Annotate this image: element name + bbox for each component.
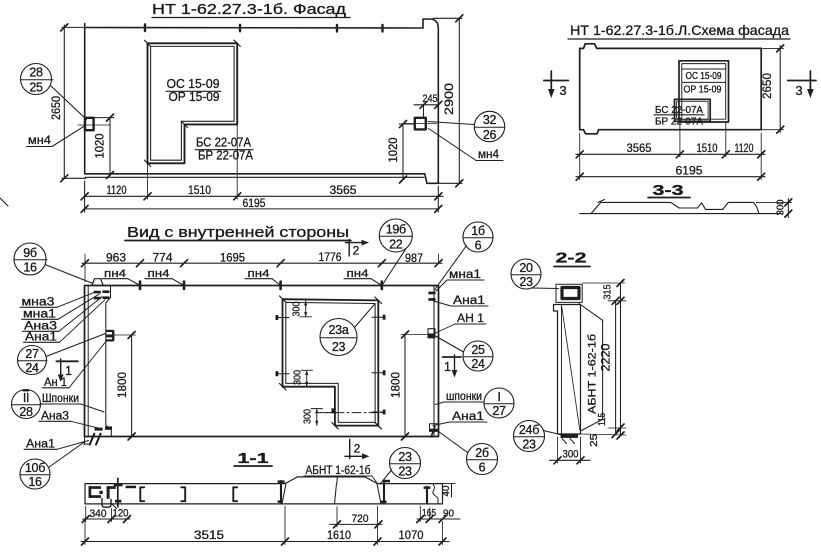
svg-text:мна3: мна3 xyxy=(22,297,55,309)
leader balloon 32/26 to embed xyxy=(428,122,474,125)
svg-text:300: 300 xyxy=(293,370,304,385)
svg-text:25: 25 xyxy=(471,343,485,357)
svg-text:1510: 1510 xyxy=(697,141,718,155)
weld dashes top-right corner xyxy=(428,292,435,301)
dim 1800 right xyxy=(389,331,433,440)
title 2-2 xyxy=(554,250,590,267)
schema label ОС/ОР xyxy=(684,71,722,96)
пн4 label 2 xyxy=(145,268,184,289)
svg-text:6195: 6195 xyxy=(676,164,703,178)
schema panel outline xyxy=(580,44,762,134)
svg-text:120: 120 xyxy=(113,508,129,520)
svg-text:1б: 1б xyxy=(471,224,485,238)
section marker 3 (left) xyxy=(544,71,569,98)
svg-text:НТ 1-62.27.3-1б. Фасад: НТ 1-62.27.3-1б. Фасад xyxy=(152,2,347,18)
svg-text:1510: 1510 xyxy=(188,183,211,197)
opening anchor marks xyxy=(276,315,386,415)
stray leader mark at left margin xyxy=(0,198,8,206)
balloon I/27 xyxy=(484,388,514,418)
svg-text:3: 3 xyxy=(559,83,566,98)
balloon 2б/6 xyxy=(437,430,498,475)
dim 1020 (facade right) xyxy=(386,121,414,184)
facade panel outline xyxy=(85,19,439,183)
svg-text:Ана3: Ана3 xyxy=(41,411,69,423)
schema dim 6195 xyxy=(576,157,765,180)
section 3-3 dim 300 xyxy=(756,199,792,218)
svg-text:1020: 1020 xyxy=(93,133,107,158)
svg-text:20: 20 xyxy=(519,261,533,275)
embed мн4 right (facade) xyxy=(403,118,437,130)
section marker 1 (left) xyxy=(56,359,77,382)
svg-text:ОС 15-09: ОС 15-09 xyxy=(686,71,722,82)
svg-text:Ана1: Ана1 xyxy=(453,295,485,307)
bracket [ at 140 xyxy=(140,487,144,501)
balloon 23а/23 xyxy=(320,304,375,356)
dim 1800 left xyxy=(115,332,136,441)
top embed (sec 2-2) xyxy=(556,284,582,302)
title 1-1 xyxy=(234,450,272,467)
svg-text:БР 22-07А: БР 22-07А xyxy=(198,149,254,163)
svg-text:23: 23 xyxy=(332,340,346,354)
anchor I at 384 xyxy=(380,480,390,503)
label Ана1 (right bottom) xyxy=(433,411,487,426)
mini dim 300 middle xyxy=(293,370,313,387)
пн4 label 1 xyxy=(102,268,140,289)
svg-text:27: 27 xyxy=(492,404,506,418)
svg-text:340: 340 xyxy=(90,508,107,520)
title: НТ 1-62.27.3-1б. Фасад xyxy=(152,2,350,18)
embed АН1 right edge xyxy=(428,329,435,338)
opening label БС 22-07А / БР 22-07А xyxy=(195,136,254,163)
svg-text:23: 23 xyxy=(522,438,536,452)
label мна1 xyxy=(22,294,100,320)
section marker 3 (right) xyxy=(788,71,816,98)
svg-text:БР 22-07А: БР 22-07А xyxy=(655,117,703,128)
section 3-3 profile xyxy=(580,200,782,214)
svg-text:28: 28 xyxy=(29,66,43,80)
svg-text:1: 1 xyxy=(444,360,451,374)
balloon 9б/16 xyxy=(14,243,93,284)
bracket ] at 184 xyxy=(181,487,185,501)
balloon 24б/23 xyxy=(514,421,563,452)
svg-text:19б: 19б xyxy=(386,223,406,237)
label Ана3 (bottom-left) xyxy=(39,411,100,429)
mini dim 300 bottom xyxy=(303,409,323,426)
facade top edge plate ticks xyxy=(145,25,383,32)
svg-text:мн4: мн4 xyxy=(28,133,51,147)
strip (sec 2-2) xyxy=(554,305,581,435)
dim 2650 (facade left) xyxy=(49,24,86,182)
title 3-3 xyxy=(648,182,690,199)
inner dim row 963|774|1695|1776|987 xyxy=(82,250,443,282)
svg-text:1: 1 xyxy=(65,364,72,378)
corner plate (top-left) xyxy=(92,279,103,286)
dim 340|120 xyxy=(82,506,130,523)
svg-text:ОР 15-09: ОР 15-09 xyxy=(684,85,722,96)
svg-text:6: 6 xyxy=(475,239,482,253)
svg-text:9б: 9б xyxy=(23,246,37,260)
dim 245 (facade right) xyxy=(414,93,442,117)
svg-text:115: 115 xyxy=(597,413,608,426)
balloon 19б/22 xyxy=(379,219,412,285)
svg-text:мна1: мна1 xyxy=(23,309,56,321)
title: Вид с внутренней стороны xyxy=(125,225,351,241)
main dim row 3515|1610|1070 xyxy=(81,506,449,545)
svg-text:3-3: 3-3 xyxy=(653,182,684,199)
dim 2900 (facade far right) xyxy=(433,15,463,187)
svg-text:2650: 2650 xyxy=(49,96,63,120)
leader balloon 28/25 to embed xyxy=(51,86,87,120)
label мна3 xyxy=(20,292,96,309)
label шпонки (right) xyxy=(436,391,485,405)
strip outline (sec 1-1) xyxy=(85,477,443,504)
svg-text:28: 28 xyxy=(19,405,33,419)
balloon 20/23 xyxy=(511,259,559,289)
svg-text:90: 90 xyxy=(443,508,454,520)
label Ана1 (right top) xyxy=(434,295,489,307)
svg-text:2: 2 xyxy=(354,442,361,456)
label Шпонки (left) xyxy=(40,393,104,412)
svg-text:10б: 10б xyxy=(25,461,45,475)
svg-text:23а: 23а xyxy=(329,323,349,337)
svg-text:963: 963 xyxy=(106,251,126,265)
svg-text:1020: 1020 xyxy=(386,137,400,162)
bottom-left corner marks xyxy=(84,426,112,444)
balloon 1б/6 xyxy=(435,222,494,290)
balloon 10б/16 xyxy=(20,442,85,490)
svg-text:мн4: мн4 xyxy=(478,147,499,161)
svg-text:16: 16 xyxy=(23,261,37,275)
svg-text:3: 3 xyxy=(795,83,802,98)
svg-text:Шпонки: Шпонки xyxy=(42,393,79,405)
svg-text:24б: 24б xyxy=(519,423,539,437)
svg-text:2220: 2220 xyxy=(598,343,612,371)
title: НТ 1-62.27.3-1б.Л.Схема фасада xyxy=(568,22,790,39)
embed Ан1 left edge xyxy=(106,330,115,342)
svg-text:300: 300 xyxy=(563,449,579,461)
window+door opening (facade) xyxy=(144,40,240,166)
label мн4 right xyxy=(429,129,504,162)
section marker 2 (bottom) xyxy=(345,439,370,459)
svg-text:1070: 1070 xyxy=(399,528,424,542)
svg-text:БС 22-07А: БС 22-07А xyxy=(196,136,252,150)
label мна1 (right) xyxy=(436,269,484,291)
inner panel right inner edge xyxy=(433,286,435,437)
svg-text:40: 40 xyxy=(441,485,452,496)
dim 720 xyxy=(330,507,382,528)
schema door leaf xyxy=(675,99,711,121)
svg-text:Ана1: Ана1 xyxy=(26,439,55,451)
svg-text:1120: 1120 xyxy=(107,183,127,197)
svg-text:ОР 15-09: ОР 15-09 xyxy=(169,90,220,104)
balloon 27/24 xyxy=(18,334,106,376)
facade dim row 1120|1510|3565 xyxy=(81,125,443,200)
dim 165|90 xyxy=(417,506,460,523)
schema window opening xyxy=(679,61,729,122)
svg-text:22: 22 xyxy=(389,238,403,252)
schema label БС/БР xyxy=(654,105,704,128)
label Ана3 xyxy=(23,297,103,333)
label Ан 1 xyxy=(42,340,107,389)
schema dim 2650 xyxy=(760,45,784,133)
anchor I at 427 xyxy=(424,486,431,503)
svg-text:16: 16 xyxy=(28,475,42,489)
svg-text:2-2: 2-2 xyxy=(556,250,587,267)
left end embed detail (sec 1-1) xyxy=(89,483,137,502)
label Ана1 (top-left) xyxy=(24,300,106,344)
svg-text:АБНТ 1-62-1б: АБНТ 1-62-1б xyxy=(306,465,371,477)
opening centerline (dash-dot) xyxy=(318,412,383,414)
weld dashes top-left corner xyxy=(94,290,110,299)
balloon 32/26 xyxy=(474,111,504,142)
svg-text:27: 27 xyxy=(25,347,39,361)
balloon II/28 xyxy=(12,390,42,420)
embed мн4 left (facade) xyxy=(78,118,111,130)
dim 1020 (facade left) xyxy=(93,114,115,178)
svg-text:315: 315 xyxy=(603,284,614,299)
label АБНТ 1-62-1б xyxy=(304,465,378,484)
dim line right (sec 2-2) xyxy=(581,280,626,447)
svg-text:НТ 1-62.27.3-1б.Л.Схема фасада: НТ 1-62.27.3-1б.Л.Схема фасада xyxy=(570,22,789,38)
facade dim 6195 xyxy=(81,181,442,212)
svg-text:1800: 1800 xyxy=(389,372,403,398)
svg-text:300: 300 xyxy=(292,301,303,316)
svg-text:3565: 3565 xyxy=(330,183,357,197)
svg-text:6: 6 xyxy=(479,461,486,475)
svg-text:26: 26 xyxy=(483,128,497,142)
пн4 label 4 xyxy=(344,268,382,289)
bottom-right corner marks xyxy=(430,424,439,437)
balloon 28/25 xyxy=(21,64,54,95)
svg-text:II: II xyxy=(23,391,29,405)
bracket [ at 233 xyxy=(233,487,237,501)
svg-text:1-1: 1-1 xyxy=(238,450,269,467)
inner panel outline xyxy=(85,286,439,437)
svg-text:25: 25 xyxy=(589,433,600,447)
label АН1 (right) xyxy=(436,313,487,333)
АБНТ bracket (sec 2-2) xyxy=(579,304,603,431)
svg-text:шпонки: шпонки xyxy=(446,391,482,403)
svg-text:23: 23 xyxy=(398,465,412,479)
svg-text:1610: 1610 xyxy=(327,528,351,542)
section marker 2 (top) xyxy=(346,240,370,258)
svg-text:1776: 1776 xyxy=(319,250,342,264)
dim 300 (sec 2-2 bottom) xyxy=(550,437,591,464)
section marker 1 (right) xyxy=(443,355,462,378)
svg-text:987: 987 xyxy=(405,251,423,265)
inner opening outline xyxy=(283,299,379,425)
mini dim 300 top xyxy=(292,301,312,317)
svg-text:Ан 1: Ан 1 xyxy=(44,377,67,389)
svg-text:1695: 1695 xyxy=(220,251,245,265)
opening label ОС 15-09 / ОР 15-09 xyxy=(166,77,221,104)
svg-text:Ана1: Ана1 xyxy=(25,332,57,344)
svg-text:2б: 2б xyxy=(475,446,489,460)
svg-text:165: 165 xyxy=(422,507,436,519)
schema dim row 3565|1510|1120 xyxy=(576,123,765,158)
svg-text:1120: 1120 xyxy=(735,141,754,155)
svg-text:2: 2 xyxy=(353,244,360,258)
svg-text:3565: 3565 xyxy=(627,141,652,155)
anchor cross at left end xyxy=(117,478,119,507)
svg-text:23: 23 xyxy=(398,450,412,464)
svg-text:мна1: мна1 xyxy=(449,269,481,281)
svg-text:2650: 2650 xyxy=(760,73,774,99)
svg-text:24: 24 xyxy=(471,357,485,371)
svg-text:720: 720 xyxy=(352,513,369,525)
label мн4 left xyxy=(27,126,85,147)
svg-text:ОС 15-09: ОС 15-09 xyxy=(167,77,220,91)
svg-text:245: 245 xyxy=(423,93,438,105)
svg-text:2900: 2900 xyxy=(442,83,456,115)
right end moulded profile xyxy=(433,484,438,504)
hook below left end xyxy=(102,499,111,508)
balloon 25/24 xyxy=(436,336,494,371)
inner slants (sec 1-1) xyxy=(282,477,381,504)
svg-text:774: 774 xyxy=(153,251,173,265)
svg-text:АБНТ 1-62-1б: АБНТ 1-62-1б xyxy=(586,334,598,414)
bottom embed (sec 2-2) xyxy=(561,435,579,444)
svg-text:Вид с внутренней стороны: Вид с внутренней стороны xyxy=(127,225,349,241)
dim 40 (right end) xyxy=(441,484,455,497)
svg-text:32: 32 xyxy=(483,113,497,127)
balloon 23/23 (sec 1-1) xyxy=(380,448,421,485)
svg-text:300: 300 xyxy=(303,409,314,424)
svg-text:3515: 3515 xyxy=(194,528,224,542)
svg-text:АН 1: АН 1 xyxy=(457,313,484,325)
svg-text:1800: 1800 xyxy=(115,372,129,398)
label Ана1 (bottom-left) xyxy=(24,439,89,451)
anchor I at 281 xyxy=(278,480,285,502)
svg-text:24: 24 xyxy=(25,361,39,375)
svg-text:Ана1: Ана1 xyxy=(452,411,484,423)
svg-text:300: 300 xyxy=(776,199,787,215)
svg-text:23: 23 xyxy=(519,275,533,289)
пн4 label 3 xyxy=(245,268,281,289)
inner panel left inner edge xyxy=(106,286,112,437)
svg-text:I: I xyxy=(497,390,500,404)
svg-text:25: 25 xyxy=(29,81,43,95)
svg-text:6195: 6195 xyxy=(243,196,266,210)
